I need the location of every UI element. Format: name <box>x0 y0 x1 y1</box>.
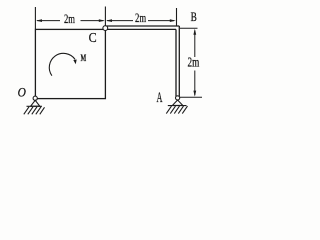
dimension line 2m (right span) <box>106 19 176 22</box>
moment arc M <box>49 53 75 75</box>
pin support O: circle <box>33 96 37 100</box>
svg-text:2m: 2m <box>135 12 147 26</box>
wire beam C-B top line <box>107 25 180 27</box>
pin support A: circle <box>176 96 180 100</box>
dimension extension line top (at B level) <box>180 27 198 29</box>
hinge circle C <box>103 26 108 31</box>
svg-text:M: M <box>81 53 87 64</box>
svg-text:A: A <box>157 88 163 105</box>
member square frame O-topleft-C-bottomright (closed box) <box>35 29 105 98</box>
dimension extension line bottom (at A base level) <box>180 96 202 98</box>
pin support A: ground line <box>168 105 187 107</box>
dimension extension tick at O (x=35.4) <box>34 7 36 29</box>
pin support O: triangle <box>31 100 40 106</box>
wire column B-A left line <box>175 29 177 96</box>
svg-text:2m: 2m <box>64 13 75 27</box>
dimension extension tick at C (x=105.4) <box>104 7 106 26</box>
moment arrowhead <box>73 59 76 64</box>
svg-text:C: C <box>89 31 97 46</box>
wire beam C-B bottom line <box>108 28 177 30</box>
svg-text:O: O <box>18 85 26 100</box>
pin support A: triangle <box>172 100 182 105</box>
dimension extension tick at B (x=176.5) <box>176 8 178 26</box>
pin support A: hatching <box>166 106 187 114</box>
dimension line 2m (vertical right) <box>193 29 196 97</box>
pin support O: ground line <box>27 105 43 107</box>
dimension line 2m (left span) <box>36 19 105 22</box>
svg-text:2m: 2m <box>188 56 200 70</box>
svg-text:B: B <box>191 11 197 25</box>
pin support O: hatching <box>24 107 45 115</box>
wire column B-A right line <box>178 26 180 97</box>
